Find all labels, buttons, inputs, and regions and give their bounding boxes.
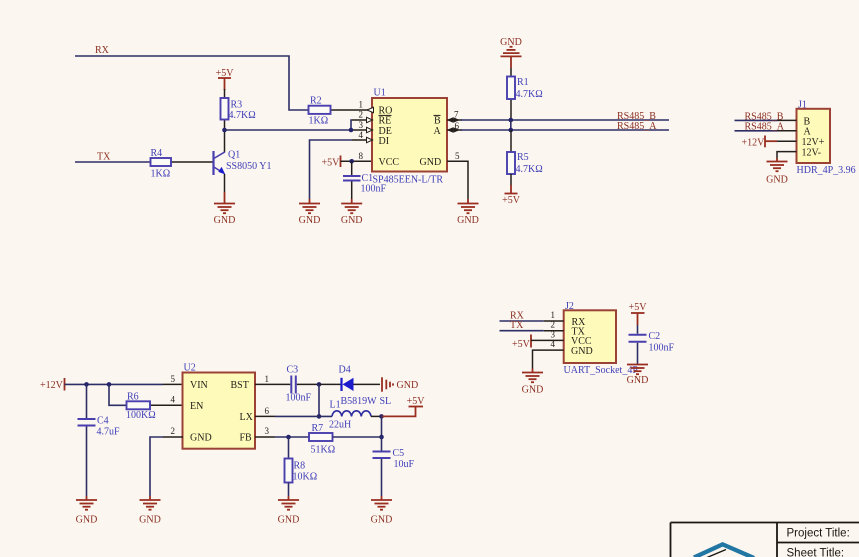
label SL — [380, 396, 392, 407]
wire between B and A nodes — [510, 120, 512, 130]
svg-text:51KΩ: 51KΩ — [311, 445, 336, 456]
svg-text:4.7KΩ: 4.7KΩ — [516, 164, 543, 175]
svg-text:+12V: +12V — [742, 137, 766, 148]
junction VCC/C1 — [349, 159, 354, 164]
svg-text:GND: GND — [341, 215, 363, 226]
svg-text:5: 5 — [455, 151, 460, 161]
svg-text:C1: C1 — [362, 173, 374, 184]
svg-text:VCC: VCC — [379, 157, 400, 168]
svg-text:4.7uF: 4.7uF — [97, 427, 121, 438]
svg-text:GND: GND — [766, 175, 788, 186]
wire RX net — [75, 56, 312, 110]
label Project Title — [787, 528, 850, 540]
wire LX — [255, 415, 332, 417]
U2 pin numbers — [171, 374, 270, 436]
junction node collector/R3/DE — [222, 128, 227, 133]
wire BST to C3 — [255, 383, 290, 385]
U1 pin 7 bidir arrow — [447, 117, 462, 123]
U1 pin name VCC — [379, 157, 400, 168]
resistor R2 — [309, 96, 373, 127]
wire RS485_B to J1 — [735, 119, 797, 121]
net label TX at J2 — [510, 320, 524, 331]
svg-text:100KΩ: 100KΩ — [126, 410, 156, 421]
svg-text:SS8050 Y1: SS8050 Y1 — [226, 161, 271, 172]
U1 pin name DE — [379, 126, 392, 137]
junction output node — [379, 414, 384, 419]
svg-text:R4: R4 — [151, 148, 163, 159]
wire RX to J2 — [500, 320, 564, 322]
power +12V at U2 — [40, 378, 65, 391]
junction C4 tap — [84, 382, 89, 387]
svg-text:C3: C3 — [287, 365, 299, 376]
inductor L1 — [329, 400, 371, 431]
U1 pin name RE with overline — [379, 115, 392, 126]
svg-text:100nF: 100nF — [286, 393, 312, 404]
junction node B — [509, 118, 514, 123]
U1 pin 6 bidir arrow — [447, 127, 462, 133]
svg-text:LX: LX — [240, 412, 254, 423]
U2 pin name GND — [190, 432, 212, 443]
power +5V at J2 — [512, 335, 564, 350]
power +5V at output — [382, 396, 426, 417]
svg-text:4: 4 — [359, 130, 364, 140]
svg-text:A: A — [434, 126, 442, 137]
svg-text:+12V: +12V — [40, 380, 64, 391]
svg-text:R6: R6 — [127, 392, 139, 403]
ground D4 sideways — [382, 377, 418, 391]
svg-text:R1: R1 — [517, 77, 529, 88]
svg-text:GND: GND — [457, 215, 479, 226]
svg-text:GND: GND — [299, 215, 321, 226]
connector J1 — [797, 100, 856, 176]
net label RX — [95, 45, 110, 56]
wire U2 GND pin2 — [150, 437, 183, 496]
resistor R8 — [285, 437, 318, 496]
svg-text:C4: C4 — [97, 416, 109, 427]
wire junction to D4 — [319, 383, 341, 385]
wire TX net — [75, 161, 151, 163]
ground U1 pin5 — [457, 199, 479, 226]
svg-text:B5819W: B5819W — [341, 396, 378, 407]
svg-text:GND: GND — [571, 346, 593, 357]
svg-text:HDR_4P_3.96: HDR_4P_3.96 — [797, 165, 856, 176]
transistor Q1 — [214, 130, 272, 192]
svg-text:GND: GND — [397, 380, 419, 391]
ground C5 — [371, 496, 393, 526]
svg-text:R2: R2 — [310, 96, 322, 107]
wire RS485_B — [461, 119, 669, 121]
svg-text:1: 1 — [551, 310, 556, 320]
net label RS485_A — [617, 121, 657, 132]
label Sheet Title — [787, 548, 845, 557]
svg-text:+5V: +5V — [322, 157, 341, 168]
wire VCC pin8 — [341, 160, 373, 162]
wire output node down to FB — [381, 416, 383, 437]
net label RS485_B — [617, 111, 656, 122]
title block frame — [671, 523, 859, 557]
U1 pin name DI — [379, 136, 390, 147]
J2 pin name VCC — [571, 336, 592, 347]
J1 pin name B — [804, 116, 811, 127]
ground flipped above R1 — [500, 37, 522, 68]
resistor R3 — [221, 89, 256, 130]
svg-text:J1: J1 — [798, 100, 807, 111]
U2 pin name BST — [231, 380, 249, 391]
svg-text:TX: TX — [510, 320, 524, 331]
svg-text:SL: SL — [380, 396, 392, 407]
net label TX — [97, 152, 111, 163]
svg-text:GND: GND — [214, 215, 236, 226]
wire node to U1 DE — [225, 129, 373, 131]
svg-text:R5: R5 — [517, 152, 529, 163]
svg-text:1: 1 — [359, 99, 364, 109]
svg-text:100nF: 100nF — [649, 343, 675, 354]
IC U1 — [372, 88, 447, 172]
svg-text:R8: R8 — [294, 461, 306, 472]
junction LX node — [317, 414, 322, 419]
J1 pin name 12V+ — [802, 137, 825, 148]
svg-text:GND: GND — [371, 515, 393, 526]
svg-text:12V-: 12V- — [802, 147, 822, 158]
resistor R6 — [126, 392, 183, 421]
power +5V at U1 VCC — [322, 156, 341, 169]
U1 pin 2 input arrow — [367, 117, 373, 122]
U1 pin 3 input arrow — [367, 127, 373, 132]
svg-text:GND: GND — [278, 515, 300, 526]
svg-text:6: 6 — [265, 406, 270, 416]
wire RS485_A — [461, 129, 669, 131]
wire TX to J2 — [500, 330, 564, 332]
ground R8 — [278, 496, 300, 526]
svg-text:BST: BST — [231, 380, 249, 391]
wire U1 pin5 to ground — [447, 161, 468, 199]
J2 pin name GND — [571, 346, 593, 357]
svg-text:10uF: 10uF — [394, 459, 415, 470]
wire C3 junction down to LX — [318, 384, 320, 416]
J2 pin numbers — [551, 310, 556, 349]
capacitor C4 — [78, 384, 121, 496]
U1 pin 4 input arrow — [367, 137, 373, 142]
ground DI — [299, 199, 321, 226]
junction node A — [509, 128, 514, 133]
svg-text:10KΩ: 10KΩ — [293, 472, 318, 483]
U1 pin name B with overline — [434, 115, 442, 126]
wire FB — [255, 436, 309, 438]
resistor R4 — [151, 148, 214, 180]
svg-text:GND: GND — [420, 157, 442, 168]
wire RE tie-down — [351, 120, 372, 130]
svg-text:1KΩ: 1KΩ — [151, 169, 171, 180]
svg-text:+5V: +5V — [502, 195, 521, 206]
svg-text:1KΩ: 1KΩ — [309, 116, 329, 127]
wire +12V to VIN — [65, 383, 184, 385]
logo chevron — [694, 544, 754, 557]
U2 pin name EN — [190, 401, 203, 412]
svg-text:J2: J2 — [565, 301, 574, 312]
svg-text:RX: RX — [95, 45, 110, 56]
svg-text:2: 2 — [359, 110, 364, 120]
svg-text:3: 3 — [265, 426, 270, 436]
svg-text:Sheet Title:: Sheet Title: — [787, 548, 845, 557]
svg-text:+5V: +5V — [629, 302, 648, 313]
svg-text:FB: FB — [240, 432, 253, 443]
U1 pin name GND — [420, 157, 442, 168]
svg-text:5: 5 — [171, 374, 176, 384]
svg-text:GND: GND — [139, 515, 161, 526]
svg-text:Q1: Q1 — [228, 150, 240, 161]
svg-text:2: 2 — [171, 426, 176, 436]
svg-text:1: 1 — [265, 374, 270, 384]
junction FB/R8 — [286, 435, 291, 440]
power +12V at J1 — [742, 136, 797, 149]
svg-text:4: 4 — [171, 395, 176, 405]
svg-text:C2: C2 — [649, 331, 661, 342]
svg-text:3: 3 — [359, 120, 364, 130]
junction BST/C3/D4 — [317, 382, 322, 387]
capacitor C5 — [373, 437, 415, 496]
U2 pin name LX — [240, 412, 254, 423]
svg-text:A: A — [804, 127, 812, 138]
svg-text:+5V: +5V — [512, 339, 531, 350]
ground C2 — [627, 365, 649, 386]
ground J2 — [522, 369, 544, 396]
svg-text:R7: R7 — [312, 423, 324, 434]
svg-text:22uH: 22uH — [329, 420, 351, 431]
svg-text:D4: D4 — [339, 365, 351, 376]
svg-text:RS485_A: RS485_A — [745, 122, 785, 133]
svg-text:C5: C5 — [393, 448, 405, 459]
wire L1 to output node — [371, 415, 382, 417]
svg-text:4.7KΩ: 4.7KΩ — [229, 110, 256, 121]
resistor R5 — [507, 130, 543, 185]
svg-text:GND: GND — [190, 432, 212, 443]
junction RE/DE — [349, 128, 354, 133]
svg-text:GND: GND — [522, 385, 544, 396]
wire J1 12V- to ground — [777, 152, 797, 158]
svg-text:GND: GND — [627, 375, 649, 386]
U2 pin name FB — [240, 432, 253, 443]
net label RS485_B at J1 — [745, 111, 784, 122]
capacitor C2 — [629, 325, 675, 365]
svg-text:SP485EEN-L/TR: SP485EEN-L/TR — [373, 174, 444, 185]
svg-text:U1: U1 — [374, 88, 386, 99]
ground under Q1 — [214, 192, 236, 226]
junction R7/C5 — [379, 435, 384, 440]
diode D4 — [339, 365, 381, 408]
wire RS485_A to J1 — [735, 130, 797, 132]
svg-text:RS485_A: RS485_A — [617, 121, 657, 132]
U1 pin name RO — [379, 105, 393, 116]
power +5V above C2 — [629, 302, 648, 325]
net label RX at J2 — [510, 310, 525, 321]
U2 pin name VIN — [190, 380, 208, 391]
ground C4 — [76, 496, 98, 526]
J2 pin name TX — [572, 327, 586, 338]
J2 pin name RX — [572, 317, 587, 328]
svg-text:TX: TX — [97, 152, 111, 163]
ground U2 — [139, 496, 161, 526]
svg-text:GND: GND — [76, 515, 98, 526]
IC U2 — [183, 363, 256, 449]
resistor R7 — [309, 423, 382, 456]
J1 pin name A — [804, 127, 812, 138]
svg-text:L1: L1 — [330, 400, 341, 411]
ground C1 — [341, 199, 363, 226]
power +5V above R3 — [216, 68, 235, 90]
svg-text:Project Title:: Project Title: — [787, 528, 850, 540]
net label RS485_A at J1 — [745, 122, 785, 133]
ground J1 — [766, 158, 788, 186]
connector J2 — [564, 301, 639, 376]
U1 pin numbers — [359, 99, 461, 161]
U1 pin name A — [434, 126, 442, 137]
U1 pin 1 output arrow — [367, 107, 374, 112]
capacitor C3 — [286, 365, 320, 404]
svg-text:4.7KΩ: 4.7KΩ — [516, 89, 543, 100]
svg-text:U2: U2 — [184, 363, 196, 374]
svg-text:+5V: +5V — [407, 396, 426, 407]
power +5V below R5 — [502, 185, 521, 206]
J1 pin name 12V- — [802, 147, 822, 158]
wire DI to ground — [310, 140, 373, 199]
svg-text:VIN: VIN — [190, 380, 208, 391]
svg-text:DI: DI — [379, 136, 390, 147]
junction EN tap — [107, 382, 112, 387]
wire EN branch — [109, 384, 127, 405]
label SP485EEN-L/TR — [373, 174, 444, 185]
resistor R1 — [507, 68, 543, 120]
capacitor C1 — [343, 161, 387, 199]
svg-text:8: 8 — [359, 151, 364, 161]
wire J2 pin4 to ground — [533, 350, 564, 368]
svg-text:EN: EN — [190, 401, 203, 412]
